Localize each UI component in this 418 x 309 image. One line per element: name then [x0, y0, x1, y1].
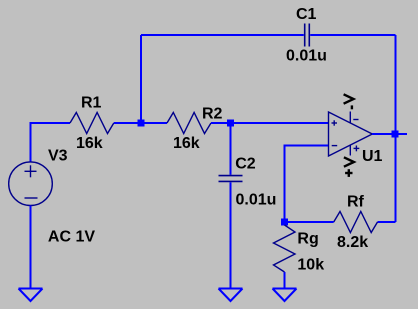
resistor R1	[70, 113, 114, 134]
svg-text:R2: R2	[202, 106, 223, 123]
wire V3 top to R1	[31, 123, 71, 162]
svg-text:Rf: Rf	[347, 193, 365, 210]
svg-text:U1: U1	[362, 148, 383, 165]
voltage source V3	[9, 162, 53, 206]
wire Rf to node FB	[285, 221, 334, 223]
wire node B to op-amp noninverting input	[231, 122, 329, 124]
svg-text:0.01u: 0.01u	[286, 48, 327, 65]
svg-text:C1: C1	[296, 6, 317, 23]
ground of C2	[219, 289, 243, 302]
svg-text:16k: 16k	[76, 135, 103, 152]
wire right vertical feedback from C1 down to Rf	[395, 35, 397, 222]
resistor R2	[167, 113, 211, 134]
wire op-amp output	[372, 133, 407, 135]
svg-text:R1: R1	[81, 95, 102, 112]
wire C2 to ground	[230, 182, 232, 288]
svg-text:8.2k: 8.2k	[337, 234, 368, 251]
resistor Rg	[274, 225, 296, 272]
ground of Rg	[273, 289, 297, 302]
wire top horizontal right of C1	[310, 34, 395, 36]
wire R1 to node A	[114, 122, 141, 124]
wire Rg to ground	[284, 272, 286, 289]
power pin label -V (rotated)	[344, 94, 354, 109]
ground of V3	[19, 289, 43, 302]
svg-text:0.01u: 0.01u	[236, 191, 277, 208]
wire Rf right lead to feedback column	[378, 221, 396, 223]
op-amp U1	[329, 112, 373, 157]
wire top-left vertical from R1/R2 node up to C1 loop	[140, 35, 142, 123]
svg-text:C2: C2	[235, 156, 256, 173]
svg-text:10k: 10k	[297, 256, 324, 273]
svg-text:Rg: Rg	[297, 231, 318, 248]
power pin label +V (rotated)	[344, 157, 354, 177]
junction node B (R2/C2/op-amp +)	[227, 120, 234, 127]
wire node B down to C2	[230, 123, 232, 175]
wire V3 to ground	[30, 206, 32, 289]
resistor Rf	[334, 212, 378, 233]
svg-text:16k: 16k	[173, 135, 200, 152]
wire R2 to node B	[211, 122, 231, 124]
capacitor C1	[305, 24, 310, 47]
capacitor C2	[219, 176, 243, 182]
svg-text:V3: V3	[48, 148, 68, 165]
junction node A (R1/R2/C1)	[138, 120, 145, 127]
wire node FB up and to op-amp inverting input	[285, 146, 329, 223]
wire node A to R2	[141, 122, 167, 124]
wire top horizontal left of C1	[141, 34, 304, 36]
svg-text:AC 1V: AC 1V	[48, 228, 95, 245]
junction node OUT (output/C1/Rf)	[392, 131, 399, 138]
junction node FB (Rf/Rg/op-amp -)	[281, 219, 288, 226]
